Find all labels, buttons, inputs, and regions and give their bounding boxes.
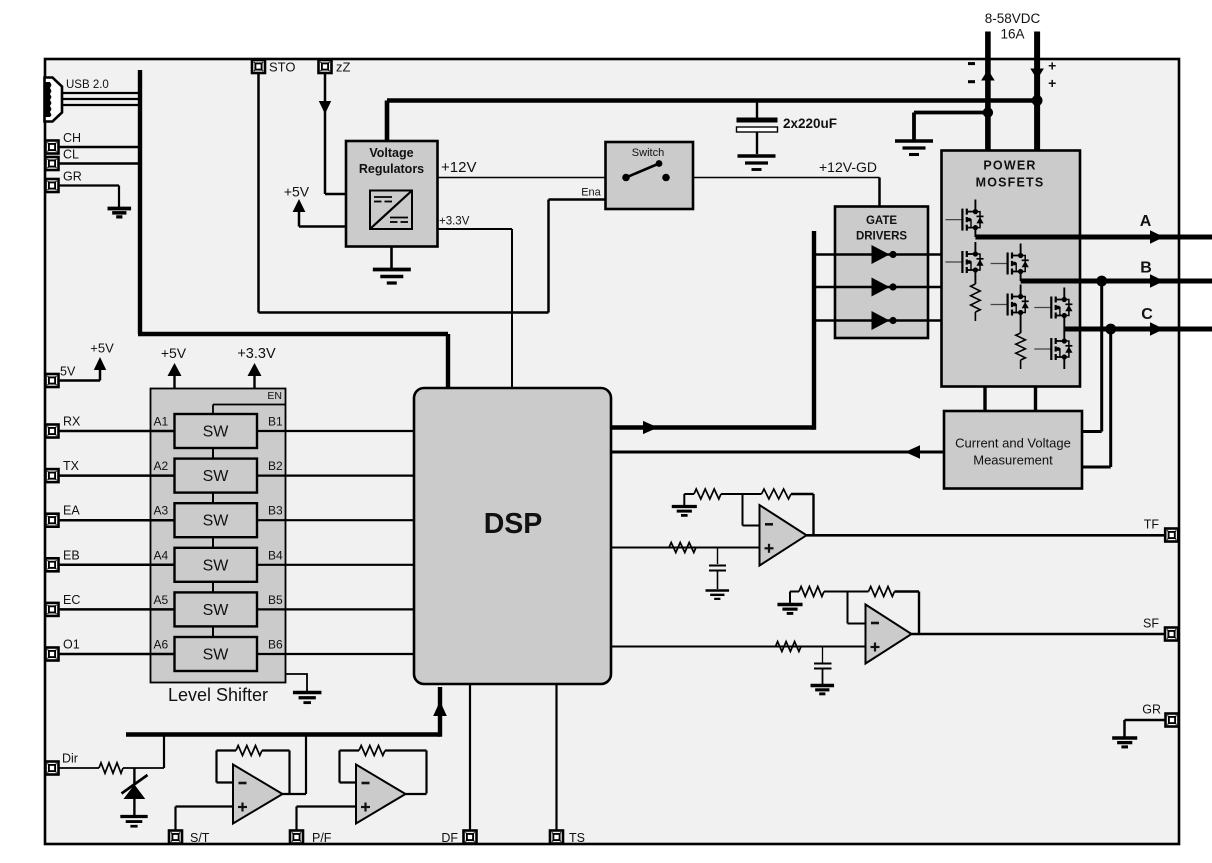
node junction V- [983,107,993,117]
wire EC input [59,608,175,611]
wire DSP to op-amp3 input [611,547,718,549]
transistor Q1 (N-MOSFET) [945,200,983,238]
svg-text:C: C [1141,306,1153,323]
terminal EB [46,558,59,571]
ground for level shifter [286,674,308,692]
svg-text:A5: A5 [154,593,169,607]
wire to minus op-amp3 [721,494,760,526]
wire CL [59,162,141,165]
wire EB input [59,564,175,567]
gate driver buffer B3 [872,311,897,330]
svg-text:DF: DF [441,831,458,845]
svg-text:Level Shifter: Level Shifter [168,685,268,705]
svg-text:EN: EN [267,390,282,402]
arrow phase C [1150,322,1164,336]
wire op-amp2 feedback [340,751,360,783]
wire TX input [59,474,175,477]
switch cell SW3 [175,503,258,537]
resistor R7 op-amp3 reference [694,489,721,499]
svg-text:MOSFETS: MOSFETS [976,176,1045,190]
wire phase C sense [1082,329,1111,467]
terminal O1 [46,648,59,661]
wire GR to ground [59,186,120,208]
ground for GR left [108,209,132,217]
wire phase C output [1064,327,1212,332]
gate drivers box U2 [835,207,928,339]
arrow 5V up [94,357,106,370]
arrow up on V- line [981,70,995,81]
wire B5 to DSP [257,608,414,610]
terminal DF [464,831,477,844]
switch box SW1 [606,142,694,209]
wire SW1 to SW2 [212,448,214,459]
level shifter box U6 [151,389,286,683]
wire gate drive line 1 [814,253,942,256]
wire gate drive line 2 [814,286,942,289]
capacitor C2 filter [709,548,726,590]
wire +3.3V output to DSP [438,229,513,388]
terminal GR left [46,179,59,192]
wire O1 input [59,653,175,656]
terminal zZ [319,60,332,73]
svg-text:TS: TS [569,831,585,845]
wire to minus op-amp4 [824,592,866,624]
wire EA input [59,519,175,522]
svg-text:SW: SW [203,602,230,619]
op-amp U7 [233,765,283,824]
svg-text:O1: O1 [63,638,80,652]
wire op-amp3 output to TF [807,534,1166,537]
wire feedback to output op-amp4 [895,592,920,635]
svg-text:B6: B6 [268,638,283,652]
wire op-amp2 output [406,793,427,795]
wire phase B sense [1082,281,1102,432]
op-amp U8 [356,765,406,824]
wire feedback to output op-amp1 [262,751,290,794]
transistor Q6 (N-MOSFET) [1034,329,1072,369]
terminal Dir [46,762,59,775]
op-amp U10 [866,605,912,664]
wire mosfets to measurement right [1034,387,1037,412]
wire op-amp1 feedback [217,751,237,783]
wire B1 to DSP [257,430,414,432]
wire CH [59,146,141,149]
terminal EC [46,603,59,616]
wire V- to ground [914,113,988,141]
svg-text:POWER: POWER [983,159,1036,173]
svg-text:+3.3V: +3.3V [439,216,470,228]
svg-text:8-58VDC: 8-58VDC [985,11,1041,26]
svg-text:+5V: +5V [90,341,114,356]
wire +12V-GD to gate drivers [693,178,880,207]
label minus signs [968,64,975,82]
svg-text:CL: CL [63,148,79,162]
svg-text:SW: SW [203,557,230,574]
svg-text:2x220uF: 2x220uF [783,116,837,131]
terminal EA [46,514,59,527]
ground for V- input [895,141,933,155]
wire USB D- [62,98,140,100]
arrow phase B [1150,274,1164,288]
svg-text:SW: SW [203,513,230,530]
wire USB D+ [62,92,140,94]
wire feedback segment op-amp4 [848,591,869,593]
resistor R5 feedback op-amp2 [359,746,385,756]
wire 5V terminal [59,368,101,381]
arrow into DSP bottom [433,701,447,716]
wire SW2 to SW3 [212,493,214,504]
svg-text:A1: A1 [154,415,169,429]
wire V+ rail to regulators [387,101,1037,142]
node junction phase B [1096,276,1107,287]
svg-text:+: + [1048,58,1056,74]
label 8-58VDC 16A [985,11,1041,42]
wire STO to switch enable [259,73,606,313]
capacitor C3 filter [814,647,832,685]
terminal P/F [290,831,303,844]
svg-text:B5: B5 [268,593,283,607]
svg-text:B: B [1140,260,1152,277]
wire gate drive bus from DSP [611,231,815,430]
svg-text:Ena: Ena [581,187,601,199]
transistor Q2 (N-MOSFET) [945,242,983,284]
wire feedback to output op-amp3 [791,494,814,535]
svg-text:Switch: Switch [632,147,664,159]
svg-text:+: + [1048,75,1056,91]
label POWER MOSFETS [976,159,1045,190]
terminal TF [1165,529,1178,542]
ground for C3 [811,686,835,694]
svg-text:Voltage: Voltage [369,146,413,160]
svg-text:+12V-GD: +12V-GD [819,159,877,175]
resistor R10 op-amp4 reference [799,587,824,597]
svg-text:P/F: P/F [312,831,332,845]
svg-text:+12V: +12V [441,159,476,176]
svg-text:DSP: DSP [484,508,543,540]
svg-text:EC: EC [63,593,80,607]
wire GR right to ground [1125,720,1166,737]
svg-text:Dir: Dir [62,752,78,766]
svg-text:Measurement: Measurement [973,453,1053,468]
svg-text:+3.3V: +3.3V [237,346,276,362]
zener diode D1 [122,768,148,816]
gate driver buffer B2 [872,278,897,297]
wire B2 to DSP [257,475,414,477]
node junction phase C [1105,324,1116,335]
arrow down on V+ line [1030,69,1044,80]
wire op-amp3 plus segment [718,547,760,549]
ground for C2 [706,591,730,599]
wire zZ to regulators [325,73,346,194]
svg-text:A2: A2 [154,459,169,473]
terminal SF [1165,628,1178,641]
label plus signs [1048,58,1056,92]
wire B3 to DSP [257,519,414,521]
svg-text:DRIVERS: DRIVERS [856,231,907,243]
label GATE DRIVERS [856,215,907,243]
transistor Q5 (N-MOSFET) [1034,288,1072,330]
svg-text:B2: B2 [268,459,283,473]
svg-text:USB 2.0: USB 2.0 [66,79,109,91]
resistor R9 op-amp4 input [776,642,802,652]
terminal S/T [169,831,182,844]
svg-text:TF: TF [1144,518,1160,532]
wire reference resistor op-amp4 [790,592,799,604]
switch cell SW4 [175,548,258,582]
DSP box U5 [414,388,611,684]
svg-text:B4: B4 [268,548,283,562]
svg-text:SW: SW [203,468,230,485]
resistor R4 feedback op-amp1 [236,746,262,756]
svg-text:B3: B3 [268,504,283,518]
transistor Q3 (N-MOSFET) [991,244,1029,282]
wire feedback to output op-amp2 [385,751,427,794]
wire +12V output [438,177,606,179]
ground for op-amp4 reference [777,605,802,614]
wire gate drive line 3 [814,319,942,322]
terminal TS [550,831,563,844]
voltage regulators box U1 [346,141,438,247]
switch cell SW6 [175,637,258,671]
terminal GR right [1166,714,1179,727]
ground for GR right [1112,738,1137,747]
svg-text:A: A [1140,213,1152,230]
switch cell SW1 [175,414,258,448]
arrow down on zZ wire [319,101,331,114]
USB connector J1 [45,78,63,122]
svg-text:GATE: GATE [866,215,897,227]
wire +5V output of regulators [299,210,346,227]
wire SW5 to SW6 [212,626,214,637]
wire reference resistor op-amp3 [684,494,694,506]
svg-text:B1: B1 [268,415,283,429]
arrow phase A [1150,230,1164,244]
wire phase A output [975,235,1212,240]
wire DSP to op-amp4 input [611,646,823,648]
terminal 5V [46,374,59,387]
arrow on gate bus [643,421,658,434]
svg-text:Current and Voltage: Current and Voltage [955,436,1071,451]
switch contacts and lever [622,160,670,181]
svg-text:RX: RX [63,415,81,429]
svg-text:S/T: S/T [190,831,210,845]
wire op-amp4 output to SF [912,633,1166,636]
wire V+ supply line [1034,32,1040,151]
wire S/T to op-amp1 plus [176,807,234,831]
svg-text:SW: SW [203,647,230,664]
switch cell SW2 [175,459,258,493]
svg-text:Regulators: Regulators [359,162,424,176]
wire op-amp4 plus segment [823,646,866,648]
arrow +3.3V into level shifter [253,374,255,389]
terminal STO [252,60,265,73]
resistor R11 feedback op-amp4 [869,587,895,597]
terminal RX [46,425,59,438]
op-amp U9 [760,505,807,566]
terminal CL [46,157,59,170]
wire V- supply line [985,32,991,151]
wire Dir input [59,767,100,769]
wire EN enable [213,405,286,415]
svg-text:+5V: +5V [284,184,310,200]
wire DSP drive bus bottom [126,687,440,737]
svg-text:GR: GR [1142,703,1161,717]
resistor R3 on Dir line [99,763,123,773]
wire B4 to DSP [257,564,414,566]
wire SW4 to SW5 [212,582,214,593]
svg-text:GR: GR [63,170,82,184]
arrow +5V into level shifter [173,374,175,389]
gate driver buffer B1 [872,245,897,264]
wire mosfets to measurement left [983,387,986,412]
svg-text:16A: 16A [1000,27,1024,42]
wire USB bus vertical [138,70,448,388]
current and voltage measurement box U4 [944,411,1082,489]
svg-text:SF: SF [1143,617,1159,631]
wire DSP to DF [469,684,471,830]
ground for zener [120,817,147,827]
svg-text:5V: 5V [60,365,76,379]
svg-text:EB: EB [63,548,80,562]
wire feedback segment op-amp3 [743,493,762,495]
wire SW3 to SW4 [212,537,214,548]
svg-text:A6: A6 [154,638,169,652]
wire B6 to DSP [257,653,414,655]
svg-text:zZ: zZ [336,60,351,75]
node junction V+ rail [1032,95,1043,106]
svg-text:STO: STO [269,60,296,75]
dc-dc converter icon [370,191,412,230]
switch cell SW5 [175,592,258,626]
svg-text:A3: A3 [154,504,169,518]
resistor R6 op-amp3 input [669,543,696,553]
svg-text:SW: SW [203,424,230,441]
wire phase B output [1021,279,1212,284]
capacitor C1 2x220uF [737,101,778,155]
resistor R8 feedback op-amp3 [762,489,792,499]
wire RX input [59,430,175,433]
wire P/F to op-amp2 plus [297,807,357,831]
resistor R1 under Q2 [971,284,981,321]
wire op-amp1 output to bus [283,735,307,795]
svg-text:CH: CH [63,131,81,145]
ground for capacitor C1 [738,156,776,170]
wire Dir to bus [123,735,164,769]
label Current and Voltage Measurement [955,436,1071,468]
power mosfets box U3 [942,151,1081,387]
arrow +5V up [293,199,306,212]
ground for op-amp3 reference [672,507,697,516]
svg-text:TX: TX [63,459,80,473]
terminal CH [46,141,59,154]
label Voltage Regulators [359,146,424,176]
resistor R2 under Q4 [1016,333,1026,369]
transistor Q4 (N-MOSFET) [991,285,1029,334]
wire DSP to TS [555,684,557,830]
arrow to DSP [905,445,920,459]
wire USB shield [62,104,140,106]
svg-text:+5V: +5V [161,345,187,361]
svg-text:EA: EA [63,504,80,518]
ground for regulators [390,247,393,268]
terminal TX [46,469,59,482]
wire measurement to DSP [611,451,945,454]
svg-text:A4: A4 [154,548,169,562]
